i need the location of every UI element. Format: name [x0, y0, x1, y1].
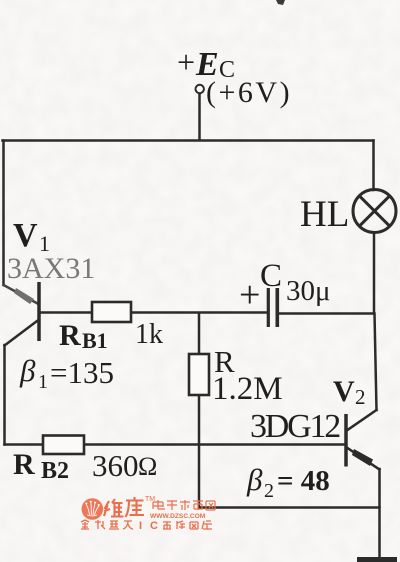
svg-text:1.2M: 1.2M — [212, 371, 283, 407]
svg-text:=135: =135 — [50, 355, 114, 390]
svg-text:Ω: Ω — [138, 452, 157, 481]
svg-text:2: 2 — [264, 480, 274, 502]
svg-text:V: V — [13, 217, 38, 254]
svg-text:β: β — [19, 353, 36, 388]
svg-text:30μ: 30μ — [286, 275, 331, 307]
svg-text:WWW.DZSC.COM: WWW.DZSC.COM — [150, 513, 206, 520]
svg-text:360: 360 — [92, 448, 139, 483]
svg-text:B1: B1 — [82, 328, 108, 353]
svg-text:+: + — [177, 44, 195, 80]
svg-text:B2: B2 — [41, 458, 69, 484]
svg-text:1: 1 — [38, 371, 48, 393]
svg-text:R: R — [59, 319, 81, 352]
svg-text:2: 2 — [355, 385, 366, 409]
svg-text:V: V — [333, 375, 355, 408]
svg-text:HL: HL — [300, 194, 349, 235]
svg-text:3DG12: 3DG12 — [250, 408, 340, 445]
svg-text:+: + — [239, 274, 260, 316]
svg-text:= 48: = 48 — [277, 465, 330, 497]
svg-text:β: β — [246, 462, 263, 497]
svg-text:1k: 1k — [135, 319, 163, 350]
svg-text:(+6V): (+6V) — [206, 76, 292, 109]
svg-text:I: I — [139, 520, 142, 532]
svg-text:3AX31: 3AX31 — [7, 252, 95, 285]
svg-text:R: R — [13, 448, 35, 481]
svg-text:C: C — [260, 258, 282, 294]
svg-text:C: C — [150, 520, 158, 532]
